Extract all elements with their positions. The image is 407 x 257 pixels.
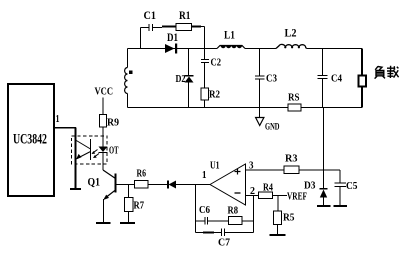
wire R8 to right vertical	[242, 220, 254, 222]
capacitor C6	[196, 205, 229, 225]
svg-text:C4: C4	[331, 73, 342, 85]
wire bottom rail right of RS	[301, 107, 362, 109]
diode D3	[304, 170, 328, 206]
wire bottom rail left of RS	[128, 107, 289, 109]
wire branch to R7	[128, 185, 130, 198]
load branch wire	[361, 49, 363, 108]
load resistor box	[359, 76, 367, 87]
svg-text:L2: L2	[285, 28, 297, 40]
IC UC3842	[8, 84, 54, 196]
optocoupler light arrows	[92, 150, 100, 159]
ground (C5)	[334, 205, 348, 207]
capacitor C1	[141, 10, 163, 31]
svg-text:D1: D1	[167, 32, 178, 44]
svg-text:C7: C7	[218, 238, 230, 249]
wire Q1 base row	[116, 184, 135, 186]
capacitor C3	[255, 49, 277, 108]
svg-text:1: 1	[202, 170, 207, 181]
svg-text:L1: L1	[224, 30, 235, 42]
svg-text:R3: R3	[285, 154, 298, 165]
svg-text:R7: R7	[134, 201, 145, 212]
wire feedback right vertical	[253, 196, 255, 233]
op-amp U1	[202, 161, 255, 206]
resistor R2	[201, 88, 220, 108]
wire R4 to VREF	[273, 195, 288, 197]
diode D1	[165, 32, 178, 54]
resistor R8	[228, 206, 243, 225]
wire branch to R5	[277, 196, 279, 212]
svg-text:RS: RS	[288, 93, 300, 104]
svg-text:UC3842: UC3842	[13, 132, 47, 148]
svg-text:VCC: VCC	[95, 87, 114, 98]
wire node down from output rail	[323, 108, 325, 171]
resistor R5	[274, 211, 295, 225]
capacitor C2	[201, 49, 221, 89]
wire feedback left vertical	[195, 185, 197, 233]
wire C1 branch vertical	[140, 28, 142, 49]
resistor RS	[288, 93, 301, 112]
svg-text:D2: D2	[176, 74, 186, 85]
wire R6 to diode	[148, 184, 168, 186]
svg-text:C6: C6	[199, 205, 210, 216]
transistor Q1	[88, 170, 116, 223]
optocoupler OT dashed box	[72, 136, 108, 164]
wire R5 to ground	[277, 225, 279, 236]
wire diode to op-amp output	[176, 184, 210, 186]
inductor L1	[217, 30, 245, 49]
svg-text:1: 1	[56, 114, 60, 125]
svg-text:R6: R6	[137, 169, 147, 180]
svg-text:R4: R4	[263, 183, 273, 194]
wire op-amp pin3 to R3	[246, 169, 285, 171]
load label 负载 (drawn strokes)	[375, 66, 399, 79]
svg-text:GND: GND	[265, 123, 280, 133]
svg-text:C1: C1	[144, 10, 157, 22]
diode D2	[176, 49, 194, 108]
svg-text:C5: C5	[346, 181, 358, 192]
svg-text:D3: D3	[304, 181, 316, 192]
ground (D3)	[317, 205, 331, 207]
transformer secondary winding	[125, 49, 133, 108]
svg-text:C3: C3	[266, 73, 277, 85]
svg-text:R9: R9	[107, 118, 119, 129]
capacitor C5	[335, 170, 358, 206]
wire op-amp pin2 to R4	[246, 195, 259, 197]
capacitor C7	[196, 229, 254, 249]
ground GND symbol	[256, 118, 280, 133]
wire R1 down to rail	[201, 27, 205, 49]
resistor R9	[100, 115, 120, 129]
wire R7 to ground	[128, 212, 130, 224]
wire R3 to node	[299, 169, 340, 171]
svg-text:R1: R1	[179, 10, 191, 22]
svg-text:OT: OT	[109, 146, 119, 157]
resistor R4	[259, 183, 274, 199]
svg-text:VREF: VREF	[287, 192, 307, 203]
resistor R6	[135, 169, 149, 189]
ground (R5)	[270, 234, 286, 236]
ground (optocoupler emitter)	[70, 188, 81, 190]
resistor R1	[162, 10, 201, 31]
svg-text:R2: R2	[209, 89, 220, 101]
capacitor C4	[318, 49, 343, 108]
optocoupler phototransistor	[76, 139, 91, 160]
inductor L2	[276, 28, 307, 49]
ground (R7)	[120, 222, 135, 224]
wire top rail	[128, 48, 363, 50]
wire VCC to R9	[102, 98, 104, 115]
resistor R7	[125, 198, 145, 212]
wire C3 node to GND	[259, 108, 261, 118]
optocoupler LED (wire R9 down, triangle, bar)	[99, 127, 108, 170]
svg-text:R5: R5	[283, 213, 295, 224]
svg-text:Q1: Q1	[88, 177, 101, 189]
svg-text:C2: C2	[211, 57, 222, 69]
ground (Q1 emitter)	[96, 222, 111, 224]
wire pin1 to optocoupler	[55, 128, 76, 190]
svg-text:R8: R8	[228, 206, 239, 217]
resistor R3	[284, 154, 299, 174]
svg-text:U1: U1	[210, 161, 220, 172]
diode D4 (op-amp output to R6)	[168, 181, 176, 189]
